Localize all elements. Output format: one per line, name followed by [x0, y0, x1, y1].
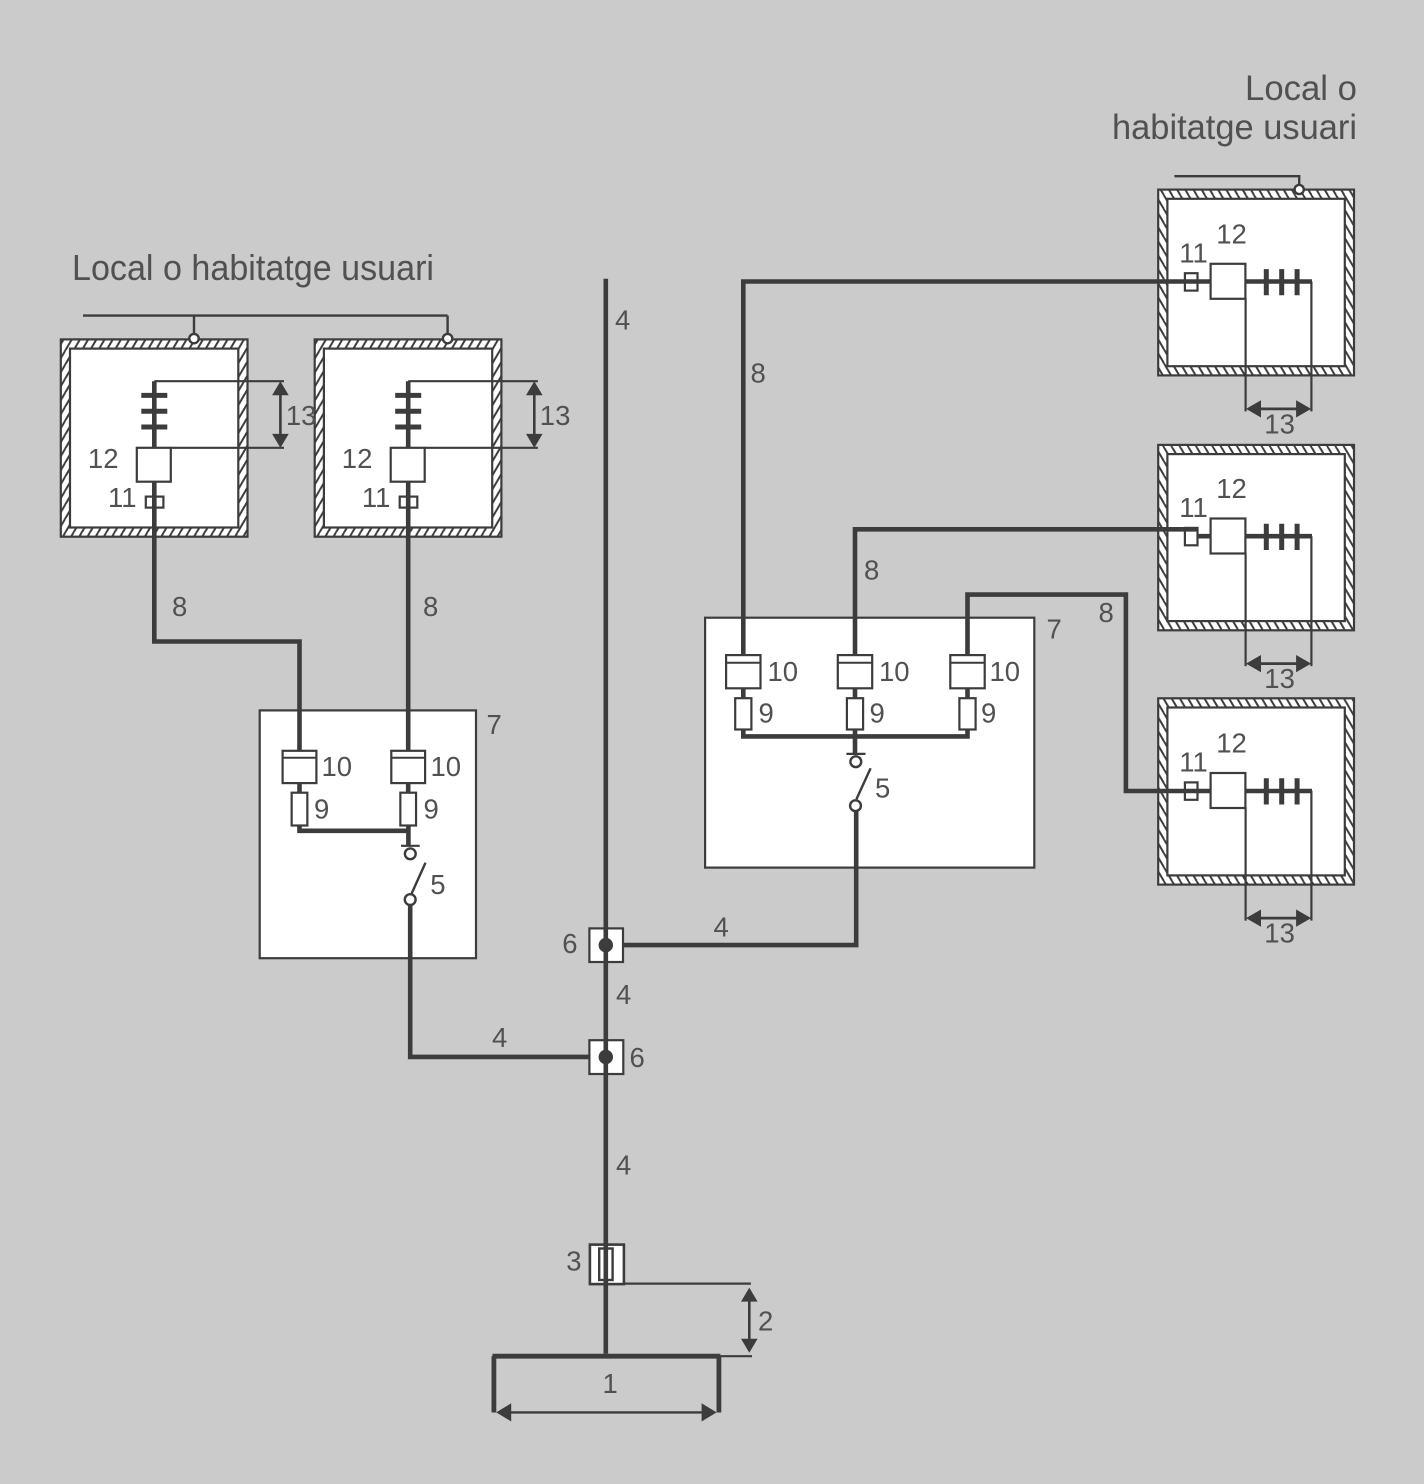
svg-text:11: 11 [1179, 747, 1208, 778]
svg-text:11: 11 [362, 482, 391, 513]
dimension arrow 13 (R1) [1246, 400, 1311, 417]
splitter 9 (right A) [735, 698, 751, 729]
hatched wall box R2 [1158, 445, 1354, 630]
general feed point 3 box [590, 1245, 624, 1285]
connector 11-12 wire (R2) [1198, 535, 1211, 538]
svg-text:6: 6 [630, 1042, 645, 1073]
svg-text:9: 9 [314, 794, 329, 825]
svg-text:5: 5 [875, 773, 890, 804]
svg-text:8: 8 [423, 591, 438, 622]
register box 7 (left) [260, 710, 476, 958]
svg-text:5: 5 [430, 869, 445, 900]
svg-text:Local o habitatge usuari: Local o habitatge usuari [72, 247, 434, 288]
antenna bars (R1 network termination 13) [1266, 269, 1297, 295]
wire 4 from switch to lower junction (left) [410, 905, 589, 1057]
svg-text:10: 10 [322, 751, 353, 782]
bus wire joining splitters (left) [300, 825, 409, 831]
general feed point 3 inner element [599, 1249, 612, 1281]
svg-text:12: 12 [88, 443, 119, 474]
svg-text:10: 10 [768, 656, 799, 687]
svg-text:10: 10 [879, 656, 910, 687]
wire 8 (right C to R3) [968, 595, 1313, 791]
register box 7 (right) [705, 618, 1034, 868]
stub wire 10-9 (right C) [965, 688, 970, 698]
svg-text:4: 4 [615, 305, 630, 336]
antenna bars (R2 network termination 13) [1266, 524, 1297, 550]
junction register 6 (upper) [589, 928, 623, 962]
stub wire to switch (left) [406, 825, 411, 846]
wire 8 from L2 to register box (with antenna trunk) [406, 381, 411, 751]
wire 8 chain segment (R2) [1198, 534, 1313, 539]
svg-text:13: 13 [1264, 409, 1295, 440]
extension line bottom (L2) [425, 447, 538, 449]
connector block 10 (right C) [950, 655, 984, 688]
svg-text:4: 4 [714, 912, 729, 943]
bus wire joining splitters (right) [743, 729, 967, 736]
svg-text:10: 10 [431, 751, 462, 782]
extension line top (L2) [408, 380, 538, 382]
svg-text:7: 7 [487, 709, 502, 740]
splitter 9 (right C) [959, 698, 975, 729]
svg-text:1: 1 [603, 1368, 618, 1399]
junction node dot (upper 6) [599, 938, 613, 952]
dimension arrow 2 [741, 1288, 758, 1353]
extension line right (R3) [1310, 791, 1312, 921]
access point 11 (R1) [1185, 273, 1198, 290]
wire 4 from upper junction to right register switch [623, 812, 856, 946]
antenna bars (R3 network termination 13) [1266, 778, 1297, 804]
svg-text:9: 9 [981, 698, 996, 729]
svg-text:12: 12 [342, 443, 373, 474]
svg-text:13: 13 [1264, 663, 1295, 694]
svg-text:13: 13 [540, 400, 571, 431]
thin extension of base bar [720, 1355, 752, 1357]
terminal box 12 (L1) [137, 448, 171, 482]
switch 5 lower contact circle (left) [405, 894, 416, 905]
switch 5 fixed contact bar (right) [846, 753, 865, 755]
dimension arrow span of base 1 [496, 1403, 716, 1421]
dimension arrow 13 (L1) [272, 381, 289, 448]
svg-text:8: 8 [864, 555, 879, 586]
terminal box 12 (R2) [1211, 519, 1246, 554]
extension line right (R2) [1310, 536, 1312, 666]
splitter 9 (left B) [400, 793, 416, 826]
stub wire 10-9 (right B) [853, 688, 858, 698]
extension line left (R1) [1244, 298, 1246, 411]
svg-text:11: 11 [108, 482, 137, 513]
svg-text:Local o: Local o [1245, 69, 1357, 108]
access point 11 (L2) [400, 497, 418, 508]
connector terminal circle (L2) [443, 334, 452, 343]
svg-text:6: 6 [562, 928, 577, 959]
hatched wall box L1 [61, 339, 248, 536]
switch 5 upper contact circle (left) [405, 848, 416, 859]
antenna bars (L1 network termination 13) [141, 395, 167, 427]
extension line right (R1) [1310, 282, 1312, 412]
svg-text:13: 13 [1264, 918, 1295, 949]
connector terminal circle (R1) [1295, 185, 1304, 194]
switch 5 lower contact circle (right) [850, 800, 861, 811]
extension line top (L1) [154, 380, 284, 382]
wire 8 from L1 to register box (with antenna trunk) [154, 381, 299, 751]
svg-text:habitatge usuari: habitatge usuari [1112, 108, 1357, 147]
stub wire 10-9 (left B) [406, 783, 411, 793]
wire 8 (right B to R2) [855, 529, 1198, 655]
connector 11-12 wire (R3) [1198, 789, 1211, 792]
extension line from 3 to dimension 2 [624, 1282, 751, 1284]
splitter 9 (left A) [292, 793, 308, 826]
junction node dot (lower 6) [599, 1050, 613, 1064]
wire 8 (right A to R1) [743, 282, 1312, 656]
connector block 10 (left A) [283, 751, 317, 783]
svg-text:12: 12 [1216, 728, 1247, 759]
hatched wall box R1 [1158, 190, 1354, 376]
svg-text:3: 3 [566, 1246, 581, 1277]
switch 5 lever (right) [856, 768, 870, 799]
extension line left (R2) [1244, 553, 1246, 666]
stub wire 10-9 (right A) [741, 688, 746, 698]
svg-text:9: 9 [759, 698, 774, 729]
hatched wall box L2 [315, 339, 502, 536]
top connector line (right premises) [1174, 176, 1299, 185]
switch 5 lever (left) [412, 863, 426, 894]
connector 11-12 wire (R1) [1198, 280, 1211, 283]
antenna bars (L2 network termination 13) [395, 395, 421, 427]
dimension arrow 13 (R2) [1246, 655, 1311, 672]
svg-text:10: 10 [990, 656, 1021, 687]
terminal box 12 (R1) [1211, 264, 1246, 299]
svg-text:12: 12 [1216, 473, 1247, 504]
access point 11 (L1) [146, 497, 164, 508]
top connector line (left premises) [83, 316, 448, 334]
svg-text:11: 11 [1179, 238, 1208, 269]
svg-text:13: 13 [286, 400, 317, 431]
svg-text:4: 4 [492, 1022, 507, 1053]
hatched wall box R3 [1158, 698, 1354, 884]
svg-text:9: 9 [424, 794, 439, 825]
extension line left (R3) [1244, 808, 1246, 921]
svg-text:2: 2 [758, 1306, 773, 1337]
extension line bottom (L1) [171, 447, 284, 449]
connector block 10 (left B) [391, 751, 425, 783]
access point 11 (R2) [1185, 528, 1198, 545]
terminal box 12 (R3) [1211, 773, 1246, 808]
base conduit 1 bar [492, 1356, 720, 1412]
dimension arrow 13 (L2) [526, 381, 543, 448]
svg-text:9: 9 [870, 698, 885, 729]
dimension arrow 13 (R3) [1246, 910, 1311, 927]
access point 11 (R3) [1185, 782, 1198, 799]
switch 5 fixed contact bar (left) [401, 845, 420, 847]
splitter 9 (right B) [847, 698, 863, 729]
junction register 6 (lower) [589, 1040, 623, 1074]
connector terminal circle (L1) [189, 334, 198, 343]
svg-text:11: 11 [1179, 492, 1208, 523]
switch 5 upper contact circle (right) [850, 756, 861, 767]
svg-text:8: 8 [1099, 597, 1114, 628]
connector block 10 (right A) [726, 655, 760, 688]
riser wire 4 (main vertical) [603, 279, 608, 1354]
svg-text:12: 12 [1216, 219, 1247, 250]
stub wire 10-9 (left A) [297, 783, 302, 793]
svg-text:4: 4 [616, 1150, 631, 1181]
svg-text:7: 7 [1047, 614, 1062, 645]
terminal box 12 (L2) [391, 448, 425, 482]
connector block 10 (right B) [838, 655, 872, 688]
stub wire to switch (right) [853, 729, 858, 754]
svg-text:8: 8 [172, 591, 187, 622]
svg-text:8: 8 [751, 358, 766, 389]
svg-text:4: 4 [616, 979, 631, 1010]
